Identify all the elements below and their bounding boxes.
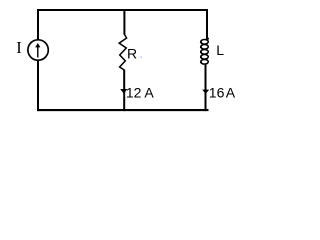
svg-text:A: A — [226, 84, 236, 100]
inductor L (coil of 5 loops with left knots) — [200, 40, 208, 65]
wire right branch lower segment — [205, 64, 207, 111]
svg-text:R: R — [127, 46, 137, 62]
wire middle branch upper segment — [123, 9, 125, 35]
wire hook into coil top — [206, 38, 209, 40]
current arrow 16 A (down arrowhead on right branch) — [202, 90, 209, 94]
wire left branch upper segment — [37, 9, 39, 40]
svg-text:12: 12 — [126, 84, 142, 100]
wire right branch upper segment — [206, 9, 208, 38]
wire bottom return node — [37, 109, 209, 111]
wire middle branch lower segment — [123, 70, 125, 112]
svg-text:16: 16 — [209, 84, 225, 100]
current source I (circle with upward arrow) — [28, 40, 48, 60]
resistor R (zigzag) — [119, 34, 126, 70]
svg-text:I: I — [16, 38, 22, 57]
svg-text:L: L — [216, 42, 224, 58]
svg-text:A: A — [144, 84, 154, 100]
wire top node (source to R to L) — [37, 9, 208, 11]
faint dot artifact right of R — [140, 56, 142, 58]
current arrow 12 A (down arrowhead on middle branch) — [120, 89, 127, 94]
wire left branch lower segment — [37, 61, 39, 112]
